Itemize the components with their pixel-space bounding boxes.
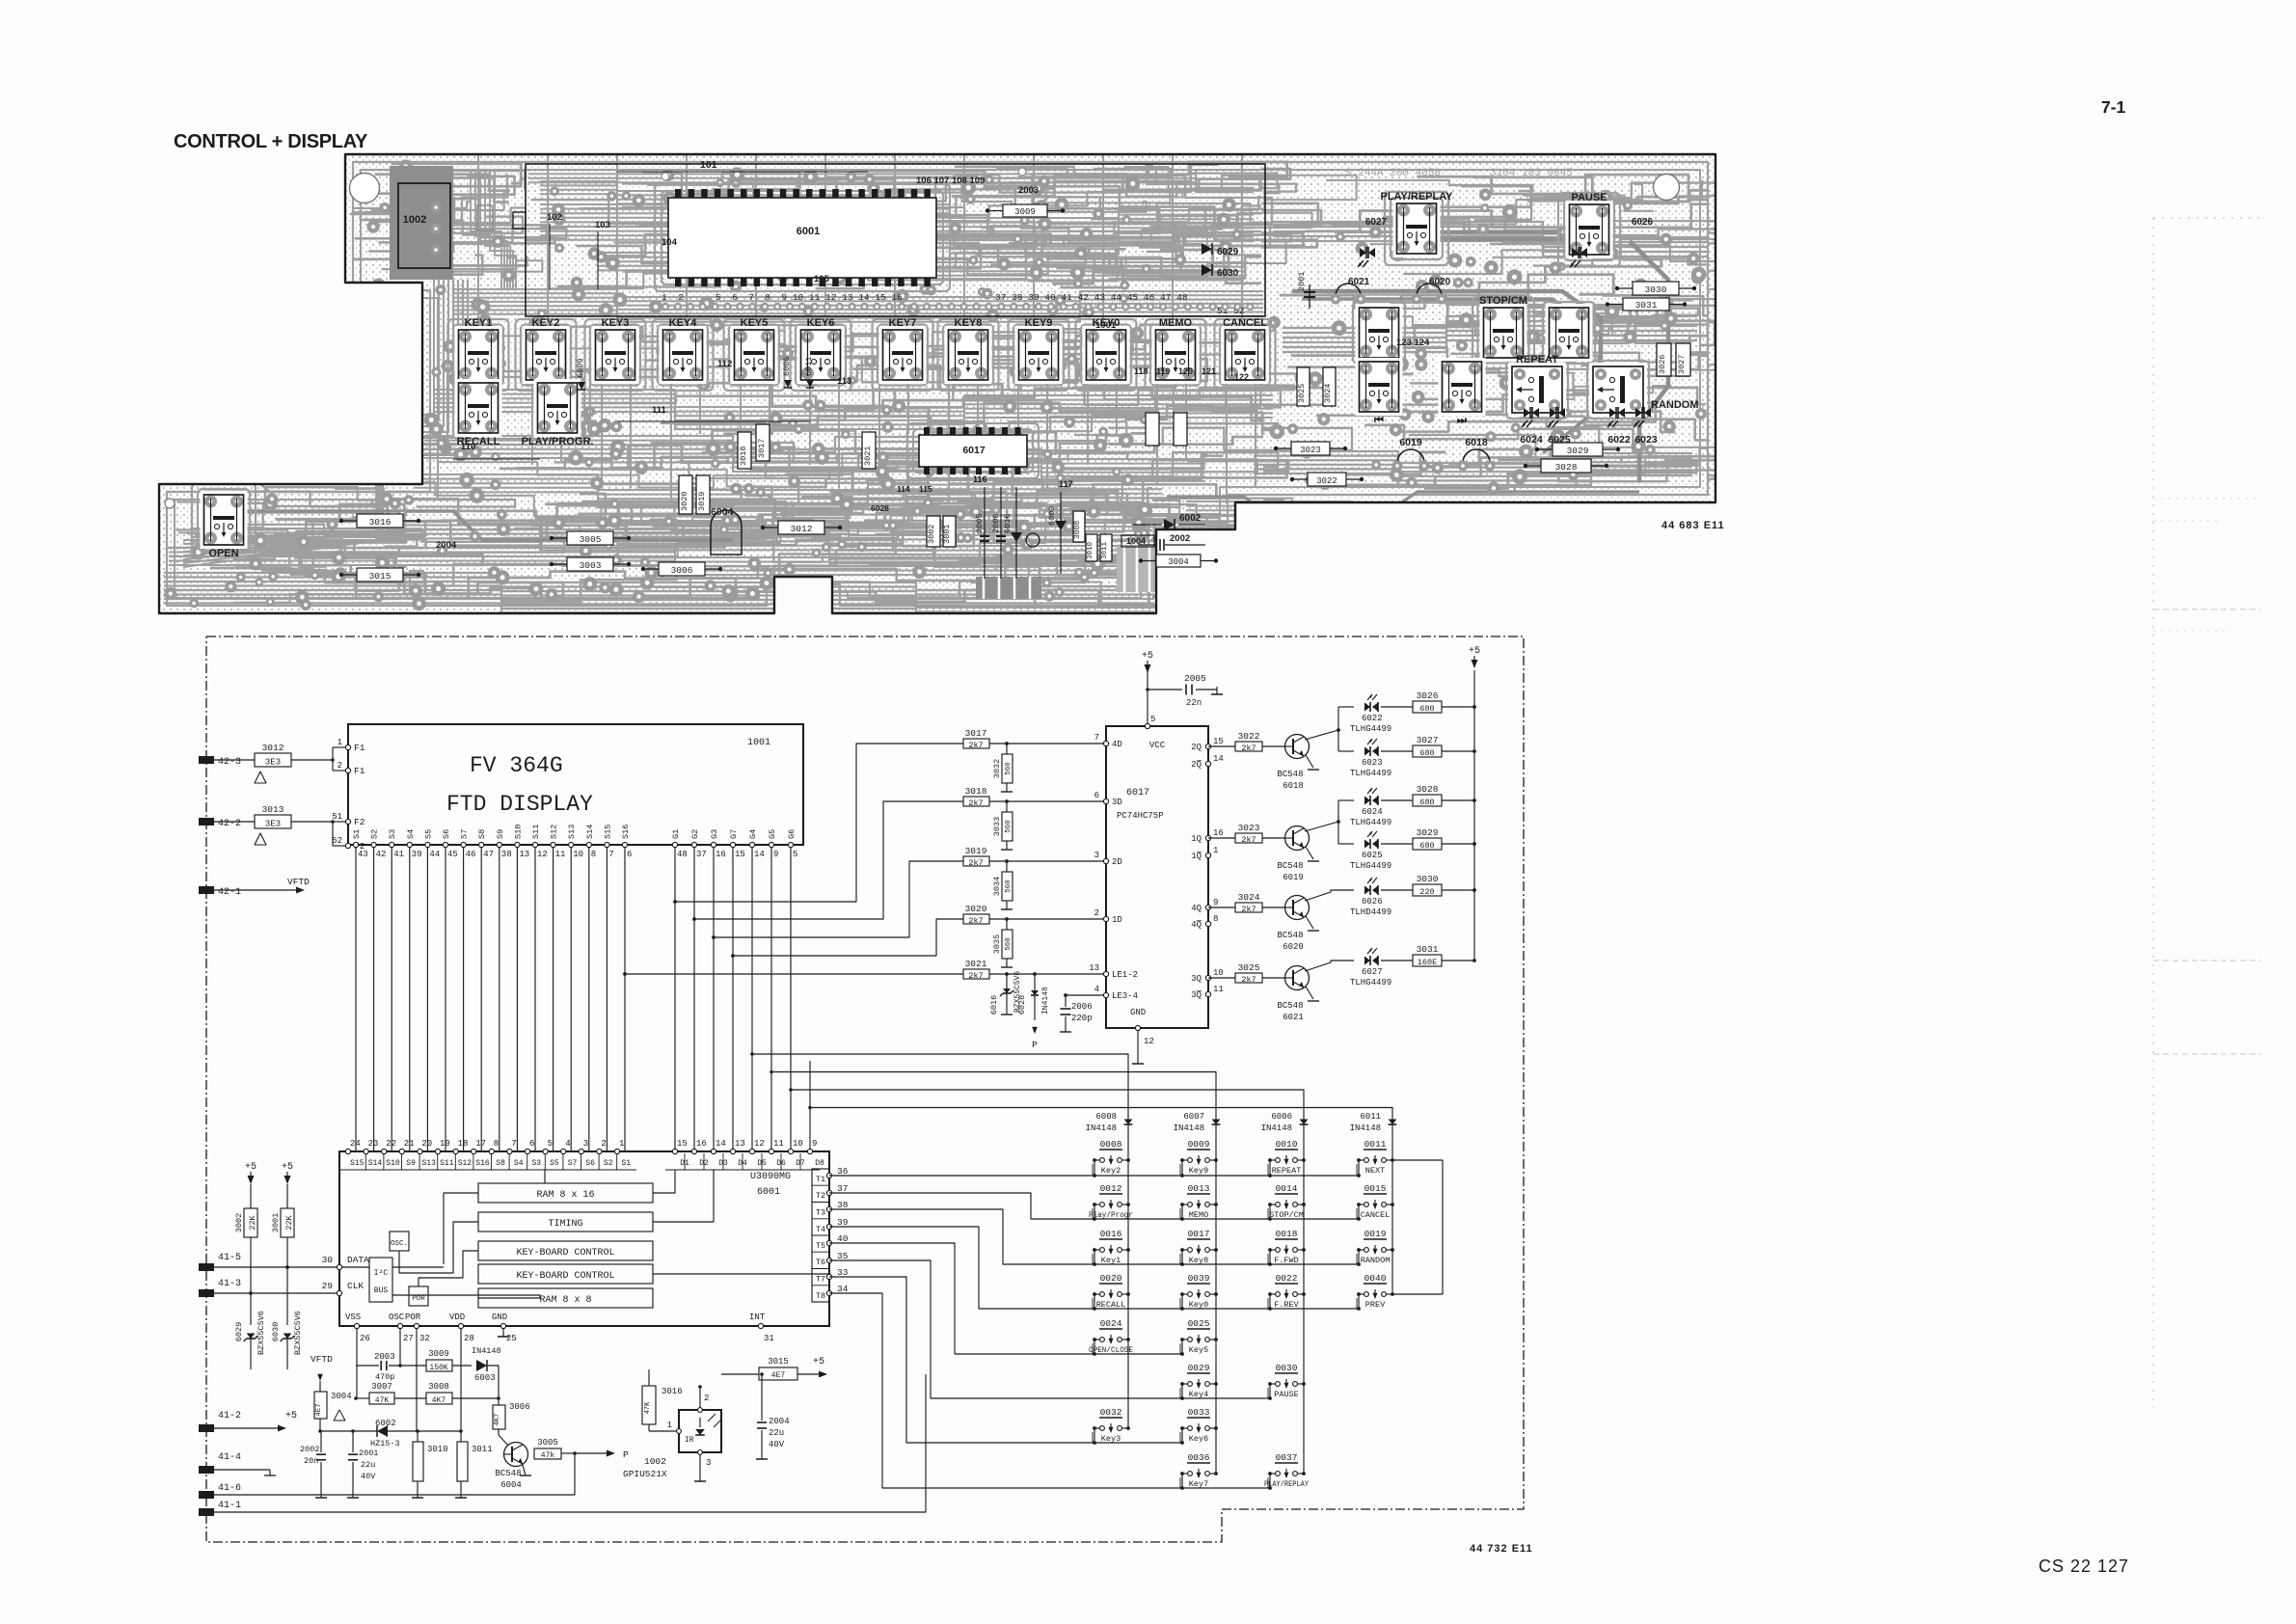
svg-text:6011: 6011 [804,357,814,376]
svg-text:3016: 3016 [369,517,392,528]
svg-text:0030: 0030 [1276,1363,1298,1373]
svg-text:5: 5 [793,850,797,859]
svg-text:20: 20 [421,1139,432,1149]
svg-text:2k7: 2k7 [1241,905,1256,914]
svg-text:41-3: 41-3 [218,1279,241,1289]
svg-text:2: 2 [338,761,342,771]
svg-text:KEY-BOARD CONTROL: KEY-BOARD CONTROL [516,1248,614,1259]
svg-text:6: 6 [529,1139,534,1149]
svg-text:48: 48 [677,850,688,859]
svg-text:6: 6 [1094,791,1099,800]
svg-text:3029: 3029 [1417,827,1439,838]
svg-text:4D: 4D [1112,740,1122,749]
svg-text:7: 7 [1094,733,1099,743]
svg-text:G2: G2 [690,829,700,839]
svg-text:IN4148: IN4148 [1086,1123,1117,1133]
svg-text:2k7: 2k7 [1241,744,1256,753]
svg-text:43: 43 [358,850,368,859]
svg-text:8: 8 [494,1139,499,1149]
svg-text:52: 52 [332,836,342,846]
svg-text:680: 680 [1419,841,1434,851]
svg-text:4: 4 [565,1139,570,1149]
svg-text:Key3: Key3 [1101,1434,1121,1444]
svg-text:3009: 3009 [1014,207,1036,217]
svg-text:121: 121 [1202,366,1216,376]
svg-text:0040: 0040 [1364,1273,1387,1284]
svg-text:3: 3 [706,1458,711,1468]
svg-text:S4: S4 [514,1159,524,1168]
svg-text:IN4148: IN4148 [1261,1123,1292,1133]
svg-text:2002: 2002 [1170,533,1190,544]
svg-text:0018: 0018 [1276,1229,1298,1239]
svg-text:3034: 3034 [992,877,1002,896]
svg-text:0009: 0009 [1188,1139,1210,1150]
svg-text:S12: S12 [458,1159,473,1168]
svg-text:3016: 3016 [662,1387,683,1396]
svg-text:1002: 1002 [644,1456,666,1467]
svg-text:OPEN/CLOSE: OPEN/CLOSE [1089,1345,1133,1355]
svg-text:22u: 22u [361,1460,375,1470]
svg-text:TIMING: TIMING [548,1219,582,1230]
svg-text:2005: 2005 [1184,673,1206,684]
svg-text:26: 26 [360,1334,370,1343]
svg-text:BC548: BC548 [1277,931,1303,940]
svg-text:42: 42 [376,850,387,859]
svg-text:6021: 6021 [1348,277,1370,287]
svg-text:RECALL: RECALL [1096,1300,1126,1310]
svg-text:3027: 3027 [1417,735,1439,745]
svg-text:IR: IR [685,1436,694,1445]
svg-text:3: 3 [1094,851,1099,860]
svg-text:3015: 3015 [369,571,392,582]
svg-text:S3: S3 [531,1159,541,1168]
svg-text:102: 102 [547,212,562,223]
svg-text:8: 8 [591,850,596,859]
svg-text:6016: 6016 [989,995,999,1015]
svg-text:3031: 3031 [1417,944,1439,955]
svg-text:3002: 3002 [234,1213,244,1232]
svg-text:0015: 0015 [1364,1183,1387,1194]
svg-text:0017: 0017 [1188,1229,1210,1239]
svg-text:KEY-BOARD CONTROL: KEY-BOARD CONTROL [516,1271,614,1282]
svg-text:103: 103 [595,220,610,230]
svg-text:FTD DISPLAY: FTD DISPLAY [446,792,593,817]
svg-text:5 6 7 8 9 10 11 12 13 14 1: 5 6 7 8 9 10 11 12 13 14 15 16 [716,292,903,303]
svg-text:3033: 3033 [992,817,1002,836]
svg-text:U3090MG: U3090MG [750,1172,791,1182]
svg-text:TLHG4499: TLHG4499 [1350,769,1391,778]
svg-text:KEY9: KEY9 [1025,317,1053,329]
svg-text:111: 111 [652,405,667,416]
svg-text:1001: 1001 [1095,320,1117,331]
svg-text:2004: 2004 [436,540,457,551]
svg-text:3012: 3012 [791,524,813,534]
svg-text:11: 11 [1213,985,1224,994]
svg-text:6002: 6002 [1179,513,1202,524]
svg-text:20n: 20n [304,1456,318,1466]
svg-text:KEY8: KEY8 [955,317,983,329]
svg-text:160E: 160E [1418,958,1437,967]
svg-text:113: 113 [837,376,851,387]
svg-text:47K: 47K [375,1396,390,1405]
svg-text:P: P [623,1449,629,1460]
svg-text:G1: G1 [671,829,681,839]
svg-text:2006: 2006 [1071,1002,1093,1012]
svg-text:3020: 3020 [965,904,987,914]
svg-text:106 107 108 109: 106 107 108 109 [916,176,985,186]
svg-text:680: 680 [1419,748,1434,758]
svg-text:2001: 2001 [359,1448,378,1458]
svg-text:6016: 6016 [1003,514,1013,533]
svg-text:S10: S10 [386,1159,400,1168]
svg-text:0012: 0012 [1100,1183,1122,1194]
svg-text:4Q: 4Q [1191,904,1202,913]
svg-text:S1: S1 [352,829,362,839]
svg-text:0037: 0037 [1276,1452,1298,1463]
svg-text:3028: 3028 [1555,462,1578,473]
svg-text:OSC: OSC [389,1313,405,1322]
svg-text:680: 680 [1419,798,1434,807]
svg-text:0020: 0020 [1100,1273,1122,1284]
svg-text:BZX55C5V6: BZX55C5V6 [257,1311,266,1355]
svg-text:6020: 6020 [1429,277,1451,287]
svg-text:118: 118 [1134,366,1148,376]
svg-text:6018: 6018 [1465,437,1488,448]
svg-text:2k7: 2k7 [968,741,983,750]
svg-text:112: 112 [717,359,732,369]
svg-text:S.244A 200 4058: S.244A 200 4058 [1345,168,1441,179]
svg-text:2Q̅: 2Q̅ [1191,759,1202,770]
svg-text:F.REV: F.REV [1274,1300,1299,1310]
svg-text:27: 27 [403,1334,414,1343]
svg-text:Key7: Key7 [1189,1479,1208,1489]
svg-text:2002: 2002 [300,1445,319,1454]
svg-text:6001: 6001 [797,226,820,237]
svg-text:47: 47 [483,850,494,859]
svg-text:S8: S8 [496,1159,505,1168]
svg-text:16: 16 [696,1139,707,1149]
svg-text:12: 12 [537,850,548,859]
svg-text:+5: +5 [285,1411,297,1421]
svg-text:41-2: 41-2 [218,1411,241,1421]
svg-text:7-1: 7-1 [2101,97,2126,117]
svg-text:KEY1: KEY1 [465,317,493,329]
svg-text:3: 3 [583,1139,588,1149]
svg-text:3018: 3018 [965,786,987,797]
svg-text:3001: 3001 [942,525,952,544]
svg-text:PLAY/PROGR.: PLAY/PROGR. [522,436,594,447]
svg-text:S9: S9 [496,829,505,839]
svg-text:VFTD: VFTD [287,877,310,887]
svg-text:3010: 3010 [427,1445,448,1454]
svg-text:F1: F1 [354,766,365,776]
svg-text:2001: 2001 [1297,272,1307,291]
svg-text:S8: S8 [477,829,487,839]
svg-text:1D: 1D [1112,915,1122,925]
svg-text:680: 680 [1419,704,1434,714]
svg-text:0008: 0008 [1100,1139,1122,1150]
svg-text:+5: +5 [245,1162,257,1173]
svg-text:38: 38 [501,850,512,859]
svg-text:0032: 0032 [1100,1407,1122,1418]
svg-text:CLK: CLK [347,1281,364,1291]
svg-text:1Q̅: 1Q̅ [1191,851,1202,861]
svg-text:1: 1 [338,738,342,747]
svg-text:6026: 6026 [1362,897,1383,907]
svg-text:BC548: BC548 [495,1469,521,1478]
svg-text:2004: 2004 [769,1417,790,1426]
svg-text:S11: S11 [440,1159,454,1168]
svg-text:22K: 22K [284,1214,294,1230]
svg-text:S5: S5 [423,829,433,839]
svg-text:6027: 6027 [1362,967,1383,977]
svg-text:2003: 2003 [1018,185,1039,196]
svg-text:9: 9 [1213,898,1218,907]
svg-text:16: 16 [716,850,726,859]
svg-text:2006: 2006 [991,514,1001,533]
svg-text:45: 45 [447,850,458,859]
svg-text:3023: 3023 [1300,446,1321,455]
svg-text:T8: T8 [816,1291,825,1301]
svg-text:MEMO: MEMO [1159,317,1193,329]
svg-text:6022: 6022 [1362,714,1383,723]
svg-text:15: 15 [677,1139,688,1149]
svg-text:38: 38 [837,1200,849,1210]
svg-text:22n: 22n [1186,698,1202,708]
svg-text:3008: 3008 [1073,521,1082,539]
svg-text:42-3: 42-3 [218,757,241,768]
svg-text:STOP/CM: STOP/CM [1269,1210,1304,1220]
svg-text:3018: 3018 [739,447,748,466]
svg-text:3017: 3017 [757,439,767,458]
svg-text:CONTROL + DISPLAY: CONTROL + DISPLAY [174,131,368,152]
svg-text:6003: 6003 [474,1373,496,1383]
svg-text:6001: 6001 [757,1187,780,1198]
svg-text:6017: 6017 [962,445,986,456]
svg-text:22K: 22K [248,1214,257,1230]
svg-text:DATA: DATA [347,1255,369,1265]
svg-text:GPIU521X: GPIU521X [623,1469,667,1479]
svg-text:T3: T3 [816,1208,825,1218]
svg-text:110: 110 [461,442,475,452]
svg-text:6028: 6028 [871,503,889,513]
svg-text:S6: S6 [442,829,451,839]
svg-text:S12: S12 [550,825,559,839]
svg-text:Key1: Key1 [1101,1256,1121,1265]
svg-text:6027: 6027 [1365,217,1388,228]
svg-text:OSC.: OSC. [391,1240,408,1248]
svg-text:0025: 0025 [1188,1318,1210,1329]
svg-text:CANCEL: CANCEL [1361,1210,1391,1220]
svg-text:⏭: ⏭ [1457,415,1467,426]
svg-text:6024: 6024 [1362,807,1383,817]
svg-text:REPEAT: REPEAT [1516,354,1558,365]
svg-text:3015: 3015 [768,1357,789,1367]
svg-text:6023: 6023 [1634,434,1658,446]
svg-text:39: 39 [837,1217,849,1228]
svg-text:41-5: 41-5 [218,1253,241,1263]
svg-text:2: 2 [1094,908,1099,918]
svg-text:3019: 3019 [965,846,987,856]
svg-text:3025: 3025 [1297,384,1307,403]
svg-text:31: 31 [764,1334,774,1343]
svg-text:13: 13 [519,850,529,859]
svg-text:S10: S10 [513,825,523,839]
svg-text:37 38 39 40 41 42 43 44 45 46: 37 38 39 40 41 42 43 44 45 46 47 48 [995,292,1188,303]
svg-text:S2: S2 [370,829,380,839]
svg-text:5: 5 [1150,715,1155,724]
svg-text:11: 11 [555,850,566,859]
svg-text:150K: 150K [429,1364,447,1372]
svg-text:1: 1 [1213,846,1218,855]
svg-text:0022: 0022 [1276,1273,1298,1284]
svg-text:114: 114 [897,484,910,494]
svg-text:RANDOM: RANDOM [1651,399,1699,411]
svg-text:3017: 3017 [965,728,987,739]
svg-text:VFTD: VFTD [311,1354,333,1365]
svg-text:Key8: Key8 [1189,1256,1208,1265]
svg-text:S9: S9 [406,1159,416,1168]
svg-text:25: 25 [506,1334,517,1343]
svg-text:560: 560 [1005,937,1013,951]
svg-text:47K: 47K [644,1401,652,1414]
svg-text:10: 10 [1213,968,1224,978]
svg-text:TLHG4499: TLHG4499 [1350,861,1391,871]
svg-text:101: 101 [700,159,717,171]
svg-text:3010: 3010 [1087,541,1094,559]
svg-text:BC548: BC548 [1277,1001,1303,1011]
svg-text:41: 41 [393,850,404,859]
svg-text:KEY5: KEY5 [741,317,769,329]
svg-text:3001: 3001 [271,1213,281,1232]
svg-text:4K7: 4K7 [432,1396,446,1405]
svg-text:44 732 E11: 44 732 E11 [1470,1543,1533,1555]
svg-text:6028: 6028 [1017,995,1027,1015]
svg-text:3029: 3029 [1567,446,1589,456]
svg-text:28: 28 [464,1334,474,1343]
svg-text:33: 33 [837,1267,849,1278]
svg-text:14: 14 [754,850,765,859]
svg-text:41-6: 41-6 [218,1483,241,1494]
svg-text:42-1: 42-1 [218,887,241,898]
svg-text:1002: 1002 [403,214,426,226]
svg-text:2k7: 2k7 [1241,975,1256,985]
svg-text:G7: G7 [729,829,739,839]
svg-text:3Q̅: 3Q̅ [1191,989,1202,1000]
svg-text:6029: 6029 [234,1322,244,1341]
svg-text:2: 2 [601,1139,606,1149]
svg-text:POR: POR [405,1313,421,1322]
svg-text:3007: 3007 [371,1382,392,1392]
svg-text:6020: 6020 [1283,942,1304,952]
svg-text:46: 46 [466,850,476,859]
svg-text:GND: GND [1130,1008,1146,1017]
svg-text:37: 37 [837,1183,848,1194]
svg-text:1004: 1004 [1126,536,1146,546]
svg-text:0033: 0033 [1188,1407,1210,1418]
svg-text:3024: 3024 [1323,384,1333,403]
svg-text:3002: 3002 [927,525,936,544]
svg-text:2D: 2D [1112,857,1122,867]
svg-text:S4: S4 [406,829,416,839]
svg-text:G5: G5 [768,829,777,839]
svg-text:30: 30 [322,1255,334,1265]
svg-text:6019: 6019 [1283,873,1304,882]
svg-text:3012: 3012 [262,743,284,753]
svg-text:TLHG4499: TLHG4499 [1350,818,1391,827]
svg-text:IN4148: IN4148 [1350,1123,1381,1133]
svg-text:POR: POR [412,1295,425,1303]
svg-text:Key5: Key5 [1189,1345,1208,1355]
svg-text:6004: 6004 [500,1480,522,1490]
svg-text:STOP/CM: STOP/CM [1479,295,1527,307]
svg-text:IN4148: IN4148 [1041,987,1050,1015]
svg-text:S5: S5 [550,1159,559,1168]
svg-text:2k7: 2k7 [968,798,983,808]
svg-text:1 2: 1 2 [662,292,684,303]
svg-text:104: 104 [662,237,678,248]
svg-text:+5: +5 [1142,651,1153,662]
svg-text:3032: 3032 [992,759,1002,778]
svg-text:CS 22 127: CS 22 127 [2039,1556,2129,1576]
svg-text:4K7: 4K7 [494,1414,501,1426]
svg-text:470p: 470p [375,1372,394,1382]
svg-text:19: 19 [440,1139,450,1149]
svg-text:40V: 40V [361,1472,376,1481]
svg-text:5: 5 [548,1139,553,1149]
svg-text:+5: +5 [1469,646,1480,657]
svg-text:36: 36 [837,1166,849,1177]
svg-text:F1: F1 [354,743,365,753]
svg-text:4E7: 4E7 [771,1371,786,1380]
svg-text:6023: 6023 [1362,758,1383,768]
svg-text:34: 34 [837,1284,849,1294]
svg-text:Key4: Key4 [1189,1390,1208,1399]
svg-text:3006: 3006 [509,1402,530,1412]
svg-text:6003: 6003 [1047,506,1057,526]
svg-text:PC74HC75P: PC74HC75P [1117,811,1164,821]
svg-text:3005: 3005 [580,534,602,545]
svg-text:F2: F2 [354,817,365,827]
svg-text:S7: S7 [460,829,470,839]
svg-text:T1: T1 [816,1175,825,1184]
svg-text:3006: 3006 [671,565,693,576]
svg-text:6006: 6006 [1271,1112,1292,1122]
svg-text:1: 1 [667,1421,672,1430]
svg-text:FV 364G: FV 364G [470,753,563,778]
svg-text:Key0: Key0 [1189,1300,1208,1310]
svg-text:0016: 0016 [1100,1229,1122,1239]
svg-text:47k: 47k [541,1451,555,1460]
svg-text:I²C: I²C [374,1269,389,1278]
svg-text:Key9: Key9 [1189,1166,1208,1176]
svg-text:3021: 3021 [965,959,987,969]
svg-text:PLAY/REPLAY: PLAY/REPLAY [1381,191,1454,203]
svg-text:6030: 6030 [1217,268,1239,279]
svg-text:35: 35 [837,1251,849,1261]
svg-text:6026: 6026 [1632,217,1654,228]
svg-text:15: 15 [1213,737,1224,746]
svg-text:T5: T5 [816,1241,825,1251]
svg-text:+5: +5 [813,1357,824,1367]
svg-text:220: 220 [1419,887,1434,897]
svg-text:RANDOM: RANDOM [1361,1256,1391,1265]
svg-text:6006: 6006 [782,357,792,376]
svg-text:3035: 3035 [992,934,1002,954]
svg-text:3004: 3004 [1168,557,1189,567]
svg-text:KEY4: KEY4 [669,317,698,329]
svg-text:S16: S16 [475,1159,490,1168]
